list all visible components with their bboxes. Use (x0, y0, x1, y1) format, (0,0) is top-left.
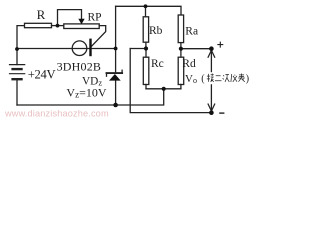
svg-text:R: R (37, 7, 46, 22)
svg-text:Ra: Ra (185, 26, 198, 38)
svg-text:+24V: +24V (28, 68, 56, 82)
svg-text:Rb: Rb (149, 25, 163, 37)
svg-text:Rd: Rd (182, 58, 196, 70)
svg-text:RP: RP (88, 11, 102, 23)
svg-text:Rc: Rc (151, 58, 164, 70)
svg-text:www.dianzishaozhe.com: www.dianzishaozhe.com (4, 108, 109, 118)
svg-text:): ) (246, 74, 249, 85)
svg-text:Vz=10V: Vz=10V (66, 85, 106, 99)
svg-text:3DH02B: 3DH02B (57, 59, 102, 73)
